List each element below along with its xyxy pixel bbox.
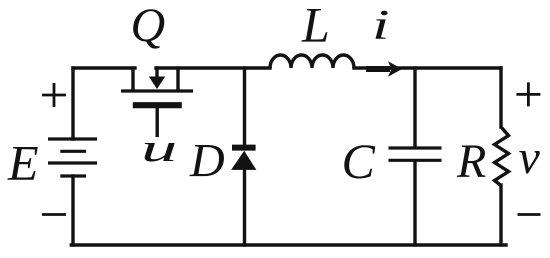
- minus sign left: [42, 213, 66, 216]
- diode D: [231, 148, 256, 170]
- wire right vertical upper: [499, 68, 502, 127]
- wire capacitor branch lower: [413, 161, 416, 245]
- minus sign right: [518, 213, 541, 216]
- drain lead: [131, 66, 134, 91]
- wire diode branch upper: [243, 68, 246, 146]
- channel bar: [121, 89, 193, 92]
- arrow into channel: [155, 66, 158, 78]
- wire bottom horizontal: [71, 243, 506, 246]
- wire top right horizontal: [354, 66, 501, 69]
- transistor Q (MOSFET): [121, 66, 193, 137]
- svg-text:E: E: [7, 135, 39, 191]
- svg-text:C: C: [342, 133, 376, 189]
- resistor R: [495, 127, 509, 186]
- current arrow i: [366, 61, 402, 76]
- svg-text:v: v: [519, 131, 541, 184]
- inductor L: [270, 55, 354, 68]
- svg-text:u: u: [141, 126, 177, 169]
- gate lead: [155, 105, 158, 137]
- gate bar: [133, 102, 182, 108]
- plus sign right: [516, 82, 540, 106]
- wire left vertical upper: [71, 68, 74, 139]
- source lead: [176, 66, 179, 91]
- svg-text:i: i: [372, 1, 390, 48]
- svg-text:Q: Q: [131, 0, 166, 52]
- wire left vertical lower: [71, 176, 74, 245]
- wire right vertical lower: [499, 185, 502, 245]
- wire top middle horizontal: [156, 66, 270, 69]
- wire top left horizontal: [73, 66, 135, 69]
- wire diode branch lower: [243, 169, 246, 245]
- svg-text:L: L: [301, 0, 330, 53]
- wire capacitor branch upper: [413, 68, 416, 147]
- capacitor C: [389, 148, 442, 160]
- svg-text:R: R: [456, 135, 486, 188]
- battery E: [48, 139, 97, 176]
- plus sign left: [42, 83, 66, 107]
- svg-text:D: D: [189, 135, 225, 188]
